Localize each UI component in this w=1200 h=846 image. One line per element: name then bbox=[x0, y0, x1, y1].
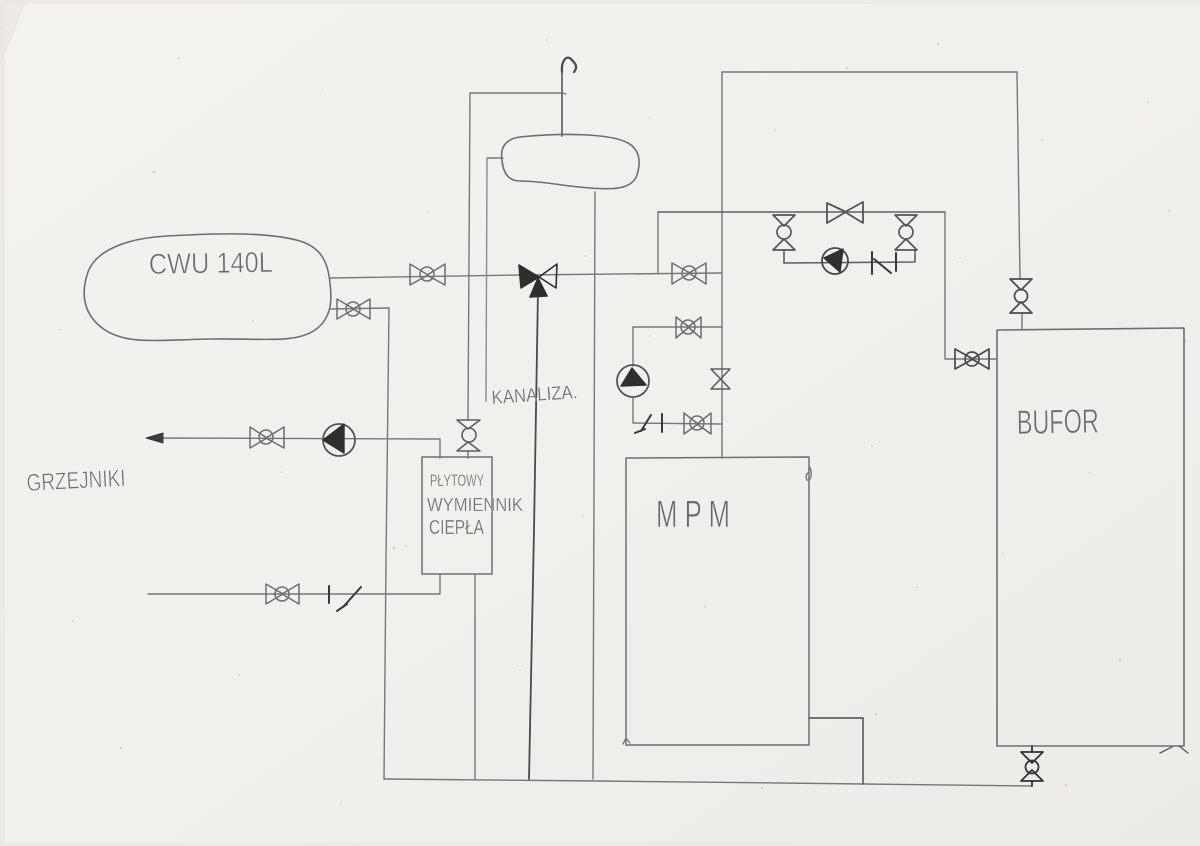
wire: top main line bbox=[722, 71, 1017, 73]
wire: MPM riser bbox=[721, 72, 723, 458]
svg-text:PŁYTOWY: PŁYTOWY bbox=[430, 471, 484, 490]
wire: MPM loop top line bbox=[633, 326, 722, 328]
svg-text:CWU 140L: CWU 140L bbox=[149, 247, 274, 281]
valve V6 (vertical, above exchanger) bbox=[457, 420, 480, 451]
wire: BUFOR feed stub to tank bbox=[1021, 313, 1023, 330]
BUFOR corner flick bbox=[1160, 746, 1188, 753]
wire: MPM pump outlet drop bbox=[632, 397, 634, 423]
wire: cold supply drop to heat exchanger bbox=[468, 93, 470, 420]
valve V2 (before MPM riser) bbox=[672, 263, 706, 284]
tank CWU 140L bbox=[84, 234, 331, 341]
wire: blob left stub bbox=[487, 157, 503, 159]
wire: radiators return line bbox=[148, 575, 440, 594]
wire: BUFOR feed drop bbox=[1017, 72, 1020, 279]
wire: valve to exchanger stub bbox=[467, 451, 469, 458]
three-way valve (dark) to sewer bbox=[519, 264, 557, 297]
wire: sewer drain line (dark) bbox=[529, 290, 538, 779]
wire: blob bottom drop to bottom main bbox=[593, 192, 595, 779]
wire: MPM loop left drop to pump bbox=[632, 327, 634, 366]
wire: cold water down-pipe x=386 bbox=[384, 308, 389, 779]
MPM boiler box bbox=[626, 457, 809, 745]
wire: pump-group left drop bbox=[657, 212, 659, 273]
wire: MPM loop bottom line bbox=[633, 423, 722, 424]
wire: bypass left drop bbox=[783, 250, 785, 263]
wire: top-left vent horizontal bbox=[470, 93, 566, 94]
wire: CWU top outlet pipe to riser bbox=[330, 273, 722, 278]
wire: bypass bottom line bbox=[784, 250, 915, 263]
valve V13 (vertical, BUFOR drain, dark) bbox=[1021, 746, 1043, 786]
svg-text:M P M: M P M bbox=[656, 494, 730, 536]
wire: blob left drop (fading) bbox=[486, 158, 487, 401]
svg-text:WYMIENNIK: WYMIENNIK bbox=[427, 495, 523, 515]
valve V5 (radiators return) bbox=[266, 584, 299, 604]
wire: pump-group right drop bbox=[944, 212, 946, 359]
valve V8 (MPM loop bottom) bbox=[684, 413, 711, 434]
heat exchanger box bbox=[422, 457, 492, 574]
valve V9 (bypass left, vertical) bbox=[773, 215, 795, 250]
valve V11 (vertical, BUFOR feed) bbox=[1010, 279, 1032, 313]
wire: CWU lower outlet stub bbox=[330, 308, 389, 309]
wire: exchanger bottom drop bbox=[474, 574, 476, 779]
expansion vessel blob bbox=[502, 135, 640, 189]
arrow to radiators bbox=[146, 433, 163, 443]
svg-text:BUFOR: BUFOR bbox=[1016, 403, 1099, 442]
vent hook curl bbox=[562, 58, 576, 72]
pump P2 (MPM, triangle up) bbox=[617, 365, 649, 397]
hourglass valve on MPM riser bbox=[711, 369, 730, 389]
check valve (MPM loop bottom, dark) bbox=[635, 414, 662, 433]
valve V3 (CWU cold feed) bbox=[337, 299, 370, 319]
valve V7 (MPM loop top) bbox=[676, 317, 701, 338]
valve V10 (bypass right, vertical) bbox=[895, 215, 917, 250]
pump P1 (radiators, triangle left) bbox=[323, 424, 355, 456]
MPM bottom-left arrow tick bbox=[623, 738, 630, 744]
BUFOR tank box bbox=[997, 328, 1184, 746]
wire: pump-group main line bbox=[658, 211, 945, 213]
valve V1 (CWU hot outlet) bbox=[410, 264, 445, 285]
paper edge shading bbox=[0, 0, 1200, 4]
svg-text:CIEPŁA: CIEPŁA bbox=[429, 517, 484, 539]
check valve (pump group, dark) bbox=[872, 252, 896, 274]
valve V4 (radiators supply) bbox=[250, 427, 284, 448]
wire: MPM outlet step bbox=[809, 718, 863, 784]
check valve (radiators return, dark) bbox=[329, 586, 361, 611]
MPM right edge squiggle bbox=[806, 466, 811, 480]
wire: bottom main pipe bbox=[384, 779, 1032, 786]
svg-text:GRZEJNIKI: GRZEJNIKI bbox=[26, 465, 126, 497]
vent hook riser bbox=[561, 72, 563, 136]
wire: link to BUFOR left nozzle bbox=[945, 358, 997, 360]
paper corner fold top-left bbox=[0, 0, 26, 64]
big bypass valve (pump group main) bbox=[827, 202, 863, 223]
pump P3 (pump group, triangle left) bbox=[822, 248, 848, 274]
valve V12 (BUFOR left nozzle) bbox=[955, 349, 989, 369]
wire: radiators supply line bbox=[150, 438, 440, 458]
